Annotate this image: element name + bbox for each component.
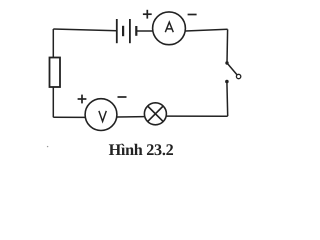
svg-text:Hình 23.2: Hình 23.2 — [109, 141, 174, 159]
wire lamp to voltmeter — [117, 116, 144, 118]
minus label voltmeter — [118, 96, 127, 98]
switch K blade — [227, 63, 237, 75]
lamp L1 — [144, 103, 166, 125]
voltmeter U2 — [85, 99, 117, 131]
wire battery to ammeter — [137, 30, 153, 32]
wire ammeter to top-right corner — [185, 29, 227, 31]
minus label ammeter — [188, 14, 197, 16]
wire left rail lower — [52, 87, 54, 117]
wire bottom rail right — [166, 115, 227, 117]
resistor R1 — [50, 58, 61, 88]
wire left rail upper — [52, 29, 54, 58]
wire right rail lower — [226, 82, 229, 117]
switch K lower contact dot — [225, 80, 229, 84]
battery B1 — [117, 19, 137, 43]
wire right rail upper — [226, 29, 229, 63]
switch K upper contact dot — [225, 61, 228, 64]
scan speck — [47, 146, 48, 147]
wire top-left segment — [53, 29, 117, 31]
plus label ammeter — [143, 10, 152, 19]
ammeter U1 — [153, 12, 186, 45]
wire voltmeter to bottom-left corner — [53, 116, 85, 118]
switch K handle ring — [236, 74, 240, 78]
plus label voltmeter — [78, 95, 87, 104]
